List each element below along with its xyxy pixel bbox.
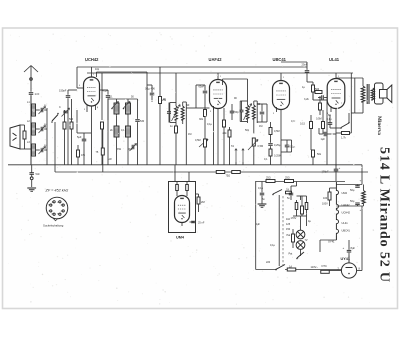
wire x186 down — [185, 124, 187, 165]
wire trimmer col x47 — [46, 108, 48, 165]
svg-text:514 L Mirando 52 U: 514 L Mirando 52 U — [376, 147, 391, 283]
wire IF1 top feed — [175, 73, 177, 102]
svg-text:+: + — [343, 246, 345, 250]
wire uy41 pins — [329, 256, 362, 271]
wire col x55 — [54, 122, 56, 172]
capacitor pwr a — [258, 182, 267, 208]
svg-text:0,1µ: 0,1µ — [290, 146, 295, 149]
wire power mid vert — [278, 195, 280, 266]
svg-text:UBC41: UBC41 — [273, 57, 287, 62]
wire UCH42 cath — [91, 106, 93, 165]
resistor um4 b — [186, 182, 189, 197]
wire anode to IF1 — [97, 72, 148, 77]
label Sockelschaltung — [43, 224, 64, 228]
resistor 1.7k nfb — [336, 113, 351, 140]
variable capacitor tuning — [59, 106, 70, 117]
coil band 1 — [32, 104, 36, 116]
dashed switch link — [282, 196, 284, 265]
svg-text:0,5M: 0,5M — [274, 130, 280, 133]
wire hv line — [361, 206, 363, 271]
wire bottom power bus — [256, 269, 342, 271]
tube UL41 — [327, 79, 345, 109]
wire UCH42 grid — [77, 67, 84, 88]
label ZF 452kHz — [45, 189, 69, 193]
svg-text:+: + — [339, 166, 341, 170]
resistor IF1 bottom — [175, 124, 178, 165]
label lamps — [287, 234, 308, 256]
wire UL41 top — [335, 73, 337, 79]
wire UL41 down — [335, 109, 337, 165]
wire IF1 x147 down — [146, 102, 148, 165]
svg-text:1M: 1M — [259, 125, 262, 128]
label UY41 — [341, 257, 351, 261]
wire IF2 pri top — [247, 79, 249, 99]
coil band 3 — [32, 144, 36, 156]
resistor dial 2 — [226, 171, 241, 178]
label ul vals — [302, 86, 331, 117]
transformer secondary — [371, 88, 374, 100]
svg-text:0,15: 0,15 — [300, 123, 305, 126]
trimmer band 3 — [36, 147, 48, 155]
svg-text:0,1: 0,1 — [121, 129, 125, 132]
tube UCH42 — [84, 77, 100, 106]
svg-text:5nF: 5nF — [36, 173, 41, 176]
wire heater bottom — [320, 236, 336, 252]
fuse 1A — [287, 265, 296, 271]
svg-text:0,1: 0,1 — [264, 158, 268, 161]
svg-text:TA: TA — [231, 145, 234, 148]
capacitor 50uF a — [336, 179, 362, 193]
label pwr vals — [258, 187, 290, 247]
lamp scale 1 — [296, 230, 305, 239]
svg-text:220: 220 — [266, 261, 271, 264]
svg-text:150: 150 — [286, 228, 291, 231]
antenna — [24, 66, 38, 92]
resistor 2M um4 — [196, 194, 205, 212]
label heater UY41b — [328, 240, 335, 244]
label 170V — [291, 217, 297, 220]
svg-text:50µ: 50µ — [350, 188, 355, 192]
wire mid bus C y164.8 — [8, 164, 362, 166]
wire lamp column — [300, 216, 302, 256]
resistor grid leak — [307, 82, 315, 100]
resistor 0.5M nfb — [316, 110, 325, 134]
label NTC — [322, 264, 327, 268]
svg-text:Pat: Pat — [287, 234, 291, 237]
coil osc 2 — [126, 99, 131, 126]
label if1 vals — [163, 98, 190, 128]
capacitor 100pF det — [257, 104, 267, 122]
coil osc 3 — [114, 126, 119, 152]
resistor mid 10k — [204, 103, 207, 165]
label UL41 — [329, 57, 340, 62]
svg-text:0,5M: 0,5M — [258, 145, 264, 148]
svg-text:0,1µ: 0,1µ — [270, 244, 275, 247]
trimmer band 1 — [36, 107, 48, 115]
capacitor 1uF nfb — [319, 128, 336, 141]
transformer core — [367, 84, 369, 104]
svg-text:125: 125 — [286, 223, 291, 226]
svg-text:4µF: 4µF — [256, 222, 261, 226]
wire sel col — [297, 196, 308, 216]
label heater UM4 — [342, 191, 348, 195]
label volt taps — [286, 218, 291, 231]
svg-text:0,25µ: 0,25µ — [274, 144, 281, 147]
socket diagram — [46, 197, 68, 221]
capacitor 50uF b — [336, 199, 363, 212]
volume pot — [248, 138, 263, 165]
coil osc 1 — [114, 99, 119, 126]
pins UL41 — [327, 76, 343, 115]
capacitor 25nF um4 — [190, 221, 205, 224]
switch band — [51, 113, 59, 123]
label UCH42 — [85, 57, 99, 62]
label Minerva — [376, 116, 382, 135]
capacitor 0.1uF 496 — [145, 85, 155, 102]
label var cap — [69, 118, 74, 121]
resistor dial 1 — [216, 171, 225, 174]
switch osc b — [123, 102, 130, 110]
trimmer osc — [130, 144, 137, 152]
svg-text:530: 530 — [140, 120, 145, 123]
coil IF1 secondary — [181, 102, 184, 124]
lamp scale 2 — [296, 241, 305, 250]
label 514 L Mirando 52 U — [376, 147, 391, 283]
capacitor 150pF — [59, 89, 77, 165]
resistor 50k bleed — [312, 150, 322, 165]
svg-text:UBC41: UBC41 — [342, 229, 351, 233]
tube UY41 — [341, 263, 356, 278]
resistor 0.15M nfb — [300, 115, 313, 150]
pins UCH42 — [79, 74, 99, 112]
svg-text:170V: 170V — [291, 217, 297, 220]
svg-text:1,7k: 1,7k — [341, 137, 346, 140]
label 4uF — [256, 222, 261, 226]
pins UBC41 — [273, 77, 289, 115]
wire UL41 cath net — [313, 92, 327, 165]
pins UAF42 — [210, 76, 226, 113]
wire right vert x362 — [361, 165, 363, 185]
fuse 7A top — [286, 189, 292, 194]
capacitor IF2 trim — [240, 101, 244, 122]
tube UBC41 — [273, 81, 290, 110]
label osc bands — [108, 148, 133, 161]
label 110V — [311, 265, 319, 269]
svg-text:25Ω: 25Ω — [285, 177, 290, 180]
resistor 25ohm b — [285, 177, 294, 183]
svg-text:7V: 7V — [305, 239, 308, 242]
label heater UL41 — [342, 221, 349, 225]
svg-text:+: + — [360, 179, 362, 183]
svg-text:UAF42: UAF42 — [209, 57, 223, 62]
resistor 47k 1W — [77, 145, 86, 165]
wire osc bottoms — [117, 140, 138, 165]
box UM4 — [169, 182, 196, 233]
wire B+ vert 2 — [351, 78, 355, 113]
capacitor pwr b — [289, 186, 294, 200]
wire sel bottom — [293, 216, 311, 226]
resistor 0.5M det — [269, 122, 280, 143]
svg-text:UL41: UL41 — [329, 57, 340, 62]
capacitor 50nF — [318, 95, 327, 100]
speaker — [375, 83, 392, 104]
pot 0.5M volume — [195, 139, 208, 147]
svg-text:0,25M: 0,25M — [274, 155, 281, 158]
svg-text:+: + — [360, 208, 362, 212]
svg-text:1nF: 1nF — [35, 92, 40, 96]
jack TA 1 — [231, 145, 237, 165]
capacitor 5nF earth — [29, 165, 40, 176]
wire UBC41 top — [280, 73, 282, 81]
resistor UAF42 cath — [223, 108, 226, 165]
svg-text:NTC: NTC — [322, 264, 327, 268]
svg-text:Minerva: Minerva — [376, 116, 382, 135]
svg-text:C: C — [59, 106, 61, 109]
label UAF42 — [209, 57, 223, 62]
svg-text:UM4: UM4 — [342, 191, 348, 195]
svg-text:UCH42: UCH42 — [85, 57, 99, 62]
capacitor 1nF antenna — [29, 92, 40, 96]
wire UCH42 top pin — [91, 67, 93, 77]
wire UAF42 top — [217, 73, 219, 80]
label heater UAF42 — [342, 203, 351, 207]
svg-text:500: 500 — [315, 88, 320, 91]
label misc b — [109, 96, 134, 99]
wire top bus A y67 — [77, 66, 307, 68]
capacitor IF1 trim — [167, 103, 171, 123]
resistor NTC — [321, 270, 330, 273]
svg-text:25Ω: 25Ω — [266, 177, 271, 180]
svg-text:50µ: 50µ — [350, 199, 355, 203]
svg-text:0,5M: 0,5M — [316, 118, 322, 121]
svg-text:7A: 7A — [286, 189, 289, 192]
wire power left vert — [255, 181, 257, 270]
wire UAF42 down — [217, 109, 219, 165]
svg-text:UM4: UM4 — [176, 236, 185, 240]
switch mains bottom — [275, 265, 285, 271]
svg-text:MW: MW — [128, 148, 133, 151]
wire UBC41 down — [280, 110, 282, 165]
svg-text:50p: 50p — [245, 129, 250, 132]
arrow IF2 tune — [244, 104, 252, 121]
trimmer band 2 — [36, 126, 48, 134]
switch osc a — [111, 102, 118, 110]
transformer primary — [336, 78, 365, 113]
wire 196-205 col — [196, 85, 210, 108]
svg-text:Sockelschaltung: Sockelschaltung — [43, 224, 64, 228]
ground antenna — [27, 188, 36, 191]
heater chain scallops — [336, 182, 338, 240]
svg-text:UL41: UL41 — [342, 221, 349, 225]
svg-text:0,1µ: 0,1µ — [327, 118, 332, 121]
svg-text:1A: 1A — [289, 265, 292, 268]
coil osc 4 — [126, 126, 131, 152]
label mid vals — [188, 118, 212, 136]
svg-text:KW: KW — [117, 148, 122, 151]
resistor plug — [20, 125, 31, 149]
wire IF1 frame — [170, 102, 187, 124]
resistor above lamps — [301, 196, 304, 216]
capacitor 0.1uF af — [281, 140, 295, 152]
svg-text:0,1µ: 0,1µ — [258, 187, 263, 190]
tube UAF42 — [210, 80, 227, 109]
wire UAF42 pin2 — [213, 106, 215, 165]
coil band 2 — [32, 123, 36, 135]
wire mid bus D y173 — [55, 171, 368, 173]
resistor 25ohm a — [266, 177, 275, 183]
wire screen x102 — [101, 73, 103, 120]
wire IF1 feed x147 — [146, 72, 148, 102]
label 220V — [266, 261, 271, 264]
resistor 50k — [70, 99, 73, 165]
svg-text:100: 100 — [323, 197, 328, 200]
jack TA 2 — [242, 149, 244, 165]
svg-text:110: 110 — [286, 218, 291, 221]
capacitor 40pF — [100, 89, 111, 121]
tube UM4 — [175, 196, 190, 223]
svg-text:UCH42: UCH42 — [342, 211, 351, 215]
capacitor 25nF grid — [281, 62, 309, 82]
capacitor 0.25uF — [268, 144, 281, 147]
svg-text:1µF: 1µF — [321, 138, 326, 141]
svg-text:1M: 1M — [188, 133, 191, 136]
svg-text:500: 500 — [69, 118, 74, 121]
label 100V — [322, 203, 328, 206]
svg-text:5µF: 5µF — [77, 135, 82, 139]
wire antenna down — [30, 95, 32, 165]
svg-text:2M: 2M — [201, 200, 205, 204]
coil IF1 primary — [175, 102, 178, 124]
svg-text:0,5M: 0,5M — [195, 139, 201, 142]
svg-text:150pF: 150pF — [59, 89, 67, 93]
label heater UBC41 — [342, 229, 351, 233]
svg-text:3,2k: 3,2k — [304, 98, 309, 101]
coil IF2 primary — [246, 99, 249, 123]
switch mains top — [272, 190, 282, 196]
svg-text:75Ω: 75Ω — [226, 175, 231, 178]
capacitor 0.1uF nfb — [327, 115, 333, 128]
resistor 100 left — [323, 188, 336, 206]
label trim vals — [44, 105, 47, 147]
wire top bus B y73 — [87, 72, 353, 74]
wire bus E y181 — [256, 181, 345, 183]
label UM4 — [176, 236, 185, 240]
capacitor padder — [135, 99, 145, 140]
wire B+ vert 1 — [350, 73, 352, 113]
label heater UCH42 — [342, 211, 351, 215]
wire pwr joins — [291, 182, 297, 187]
label misc a — [95, 68, 100, 71]
label UBC41 — [273, 57, 287, 62]
svg-text:60pF: 60pF — [199, 86, 205, 89]
capacitor 5uF cath — [77, 110, 91, 165]
capacitor 8uF — [343, 240, 356, 263]
resistor um4 a — [176, 182, 179, 197]
capacitor 100uF — [322, 164, 341, 181]
capacitor 50pF — [230, 104, 240, 120]
wire IF1 sec out — [186, 107, 196, 109]
svg-text:10p: 10p — [95, 68, 100, 71]
label if2 vals — [234, 97, 261, 106]
resistor 75 mid — [96, 129, 105, 172]
svg-text:40pF: 40pF — [102, 89, 108, 93]
resistor 1M — [63, 110, 66, 165]
svg-text:110V~: 110V~ — [311, 265, 319, 269]
svg-text:100V: 100V — [322, 203, 328, 206]
resistor cath bias — [319, 96, 322, 115]
svg-text:Pat: Pat — [289, 253, 293, 256]
resistor dropper — [362, 185, 366, 207]
svg-text:0,3: 0,3 — [291, 120, 295, 123]
wire um4 bottom — [181, 223, 183, 227]
label ubc vals — [264, 120, 295, 161]
resistor 20k — [223, 127, 232, 165]
coil IF2 secondary — [252, 101, 255, 123]
label misc c — [110, 129, 125, 132]
svg-text:ZF = 452 kHz: ZF = 452 kHz — [45, 189, 69, 193]
plug socket — [10, 125, 20, 149]
switch nfb — [330, 113, 350, 129]
wire IF2 top feed — [223, 79, 248, 85]
node earth circle — [30, 174, 33, 187]
resistor lamp shunt — [292, 229, 295, 248]
label det vals — [245, 125, 262, 132]
wire coil col x31 — [30, 95, 32, 165]
wire osc tops — [108, 99, 138, 165]
label coil L1 — [27, 101, 30, 144]
resistor 500 — [315, 88, 322, 94]
wire IF2 sec down — [253, 123, 255, 134]
capacitor 60pF — [196, 85, 207, 103]
wire IF2 frame — [240, 101, 257, 123]
svg-text:0,1µ 496: 0,1µ 496 — [145, 88, 155, 91]
svg-text:0,1: 0,1 — [109, 96, 113, 99]
svg-text:25 nF: 25 nF — [198, 222, 205, 225]
switch lamp — [296, 252, 304, 259]
svg-text:0,1µ: 0,1µ — [207, 123, 212, 126]
resistor 0.25M — [269, 146, 281, 165]
resistor screen — [101, 122, 104, 165]
svg-text:LW: LW — [108, 158, 112, 161]
svg-text:50p: 50p — [235, 111, 240, 114]
wire x160 drop — [159, 67, 167, 165]
wire um4 feeds — [175, 165, 189, 182]
arrow IF1 tune — [172, 105, 181, 122]
resistor sel a — [295, 200, 298, 216]
